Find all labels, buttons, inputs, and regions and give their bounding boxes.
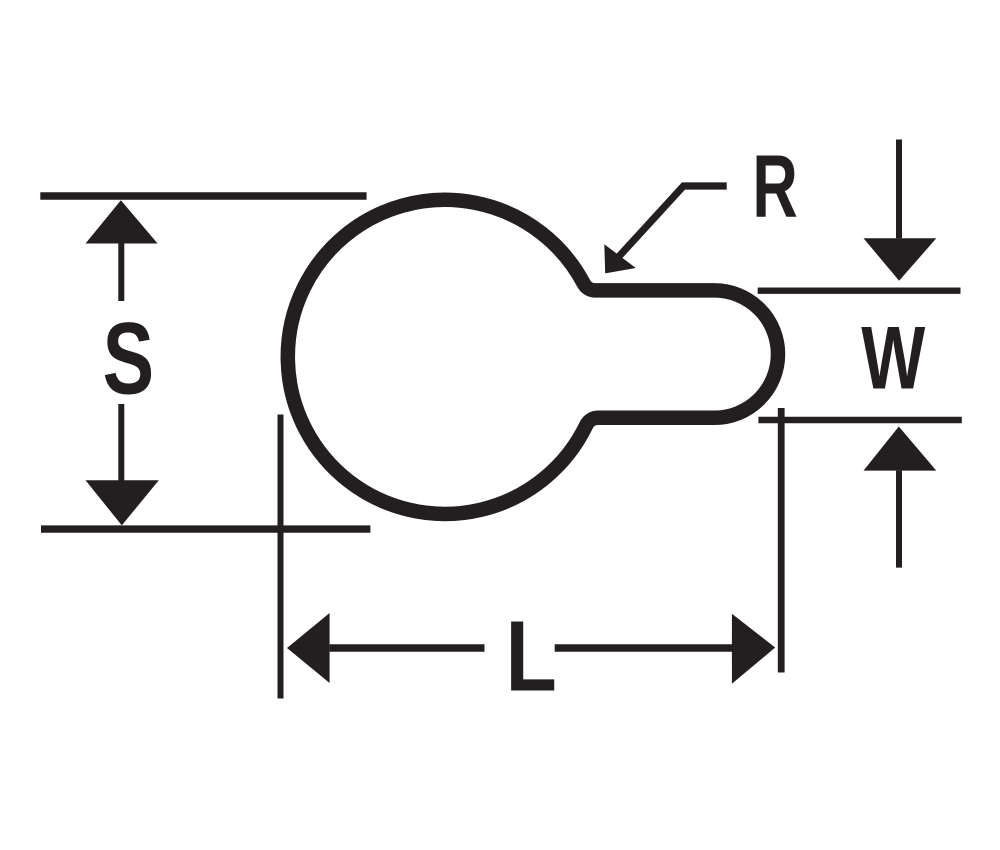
svg-text:L: L (506, 600, 557, 713)
svg-text:S: S (103, 302, 154, 416)
svg-text:W: W (861, 308, 925, 408)
svg-text:R: R (752, 137, 797, 236)
